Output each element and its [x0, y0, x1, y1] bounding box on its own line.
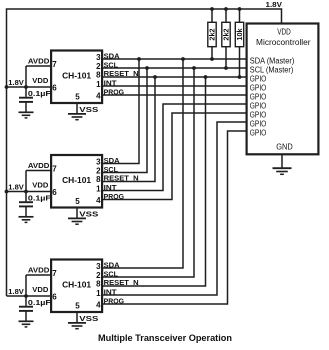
wire VDD U1	[7, 86, 52, 88]
svg-text:GPIO: GPIO	[250, 129, 266, 138]
svg-text:1: 1	[96, 184, 101, 193]
wire AVDD U1	[26, 65, 51, 67]
svg-text:CH-101: CH-101	[62, 280, 92, 289]
ground below VSS U3	[68, 323, 86, 329]
svg-text:8: 8	[96, 71, 101, 80]
svg-text:INT: INT	[104, 289, 118, 296]
svg-text:4: 4	[96, 300, 101, 309]
svg-text:Microcontroller: Microcontroller	[256, 37, 311, 47]
junction VDD/C2 U2	[24, 190, 28, 194]
svg-text:AVDD: AVDD	[28, 161, 50, 170]
svg-text:PROG: PROG	[104, 194, 125, 201]
svg-text:6: 6	[52, 292, 57, 301]
resistor R2 2k2 (SCL pull-up)	[221, 9, 230, 68]
wire AVDD-VDD link U3	[25, 275, 27, 296]
ground below C1	[19, 112, 34, 118]
transceiver U2 CH-101 box	[51, 155, 102, 208]
junction SCL/R2	[224, 66, 228, 70]
wire MCU GND	[281, 154, 283, 168]
svg-text:SCL: SCL	[104, 62, 119, 69]
svg-text:7: 7	[52, 269, 57, 278]
svg-text:CH-101: CH-101	[62, 176, 92, 185]
svg-text:1.8V: 1.8V	[8, 287, 24, 296]
svg-text:VSS: VSS	[79, 210, 98, 219]
svg-text:SDA: SDA	[104, 54, 120, 61]
svg-text:SDA: SDA	[104, 263, 120, 270]
svg-text:0.1µF: 0.1µF	[28, 298, 52, 307]
svg-text:5: 5	[75, 197, 80, 206]
svg-text:SCL: SCL	[104, 167, 119, 174]
svg-text:SCL: SCL	[104, 271, 119, 278]
svg-text:0.1µF: 0.1µF	[28, 193, 52, 202]
svg-text:7: 7	[52, 60, 57, 69]
junction SDA/R1	[210, 57, 214, 61]
svg-text:SCL (Master): SCL (Master)	[250, 66, 294, 75]
svg-text:GPIO: GPIO	[250, 75, 266, 84]
wire AVDD U2	[26, 170, 51, 172]
junction rail/R1	[210, 7, 214, 11]
svg-text:6: 6	[52, 83, 57, 92]
transceiver U3 CH-101 box	[51, 260, 102, 313]
svg-text:AVDD: AVDD	[28, 56, 50, 65]
svg-text:VSS: VSS	[79, 105, 98, 114]
svg-text:RESET_N: RESET_N	[104, 71, 139, 78]
wire SCL riser from U2	[102, 68, 147, 173]
junction VDD/C3 U3	[24, 294, 28, 298]
svg-text:5: 5	[75, 301, 80, 310]
wire VDD U3	[7, 295, 52, 297]
svg-text:Multiple Transceiver Operation: Multiple Transceiver Operation	[98, 332, 232, 343]
junction SCL/U2	[145, 66, 149, 70]
ground below C2	[19, 217, 34, 223]
svg-text:0.1µF: 0.1µF	[28, 89, 52, 98]
wire AVDD-VDD link U1	[25, 66, 27, 87]
svg-text:CH-101: CH-101	[62, 71, 92, 80]
wire AVDD-VDD link U2	[25, 171, 27, 192]
ground below VSS U2	[68, 218, 86, 224]
junction SDA/U2	[137, 57, 141, 61]
wire INT U2 to MCU GPIO	[102, 104, 247, 191]
svg-text:8: 8	[96, 280, 101, 289]
svg-text:VDD: VDD	[32, 180, 48, 189]
microcontroller box	[247, 24, 319, 155]
svg-text:6: 6	[52, 188, 57, 197]
junction RESET_N/R3	[238, 75, 242, 79]
junction VDD/C1 U1	[24, 85, 28, 89]
svg-text:4: 4	[96, 196, 101, 205]
svg-text:1: 1	[96, 80, 101, 89]
svg-text:INT: INT	[104, 185, 118, 192]
wire RESET_N riser from U2	[102, 77, 155, 182]
resistor R3 10k (RESET_N pull-up)	[235, 9, 244, 77]
wire VSS U3	[76, 312, 78, 323]
ground below VSS U1	[68, 114, 86, 120]
wire VDD U2	[7, 191, 52, 193]
ground below C3	[19, 321, 34, 327]
svg-text:8: 8	[96, 175, 101, 184]
wire SDA riser from U3	[102, 59, 183, 268]
junction rail/R3	[238, 7, 242, 11]
svg-text:INT: INT	[104, 80, 118, 87]
svg-text:AVDD: AVDD	[28, 265, 50, 274]
wire VSS U1	[76, 103, 78, 114]
wire SDA bus (U1 to MCU)	[102, 58, 247, 60]
junction rail/R2	[224, 7, 228, 11]
svg-text:SDA (Master): SDA (Master)	[250, 57, 295, 66]
resistor R1 2k2 (SDA pull-up)	[207, 9, 216, 59]
svg-text:1.8V: 1.8V	[8, 78, 24, 87]
wire SCL bus (U1 to MCU)	[102, 67, 247, 69]
junction rail/VDD U2	[5, 190, 9, 194]
svg-text:GPIO: GPIO	[250, 93, 266, 102]
svg-text:GND: GND	[276, 142, 293, 151]
svg-text:10k: 10k	[235, 27, 244, 40]
wire SDA riser from U2	[102, 59, 139, 164]
capacitor C2 0.1uF	[19, 192, 33, 217]
svg-text:GPIO: GPIO	[250, 102, 266, 111]
svg-text:3: 3	[96, 158, 101, 167]
svg-text:RESET_N: RESET_N	[104, 175, 139, 182]
svg-text:2k2: 2k2	[207, 28, 216, 40]
wire PROG U1 to MCU GPIO	[102, 94, 247, 96]
svg-text:PROG: PROG	[104, 299, 125, 306]
wire PROG U2 to MCU GPIO	[102, 113, 247, 200]
wire PROG U3 to MCU GPIO	[102, 131, 247, 304]
wire RESET_N riser from U3	[102, 77, 205, 286]
junction SDA/U3	[181, 57, 185, 61]
svg-text:1.8V: 1.8V	[266, 0, 283, 9]
svg-text:SDA: SDA	[104, 158, 120, 165]
svg-text:PROG: PROG	[104, 90, 125, 97]
svg-text:3: 3	[96, 53, 101, 62]
svg-text:VDD: VDD	[277, 27, 291, 36]
svg-text:GPIO: GPIO	[250, 120, 266, 129]
wire INT U3 to MCU GPIO	[102, 122, 247, 295]
svg-text:VDD: VDD	[32, 76, 48, 85]
wire 1.8V power rail (left + top)	[7, 9, 282, 296]
svg-text:VSS: VSS	[79, 314, 98, 323]
svg-text:5: 5	[75, 92, 80, 101]
svg-text:7: 7	[52, 165, 57, 174]
svg-text:4: 4	[96, 91, 101, 100]
junction SCL/U3	[192, 66, 196, 70]
svg-text:RESET_N: RESET_N	[104, 280, 139, 287]
wire RESET_N bus (U1 to MCU)	[102, 76, 247, 78]
svg-text:GPIO: GPIO	[250, 84, 266, 93]
svg-text:VDD: VDD	[32, 285, 48, 294]
capacitor C3 0.1uF	[19, 296, 33, 321]
wire INT U1 to MCU GPIO	[102, 85, 247, 87]
transceiver U1 CH-101 box	[51, 51, 102, 104]
ground below MCU	[273, 168, 292, 174]
svg-text:3: 3	[96, 262, 101, 271]
junction RESET_N/U3	[204, 75, 208, 79]
svg-text:1: 1	[96, 289, 101, 298]
wire VSS U2	[76, 207, 78, 218]
svg-text:GPIO: GPIO	[250, 111, 266, 120]
wire AVDD U3	[26, 274, 51, 276]
svg-text:1.8V: 1.8V	[8, 183, 24, 192]
svg-text:2k2: 2k2	[221, 28, 230, 40]
junction RESET_N/U2	[153, 75, 157, 79]
capacitor C1 0.1uF	[19, 87, 33, 112]
junction rail/VDD U1	[5, 85, 9, 89]
wire SCL riser from U3	[102, 68, 194, 277]
